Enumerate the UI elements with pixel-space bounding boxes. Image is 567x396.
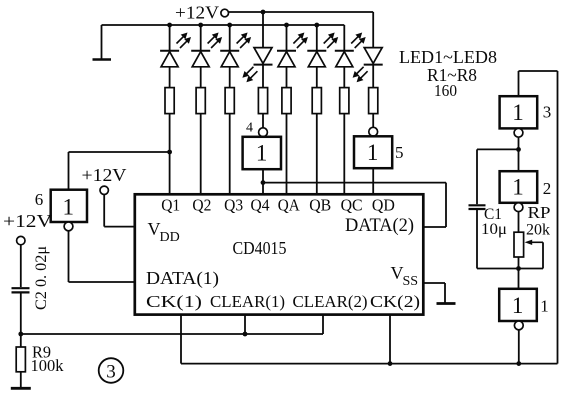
capacitor C1 <box>469 205 486 209</box>
wire clock rail <box>181 363 558 365</box>
wire to C1 branch <box>477 149 519 204</box>
svg-text:CD4015: CD4015 <box>233 238 287 258</box>
resistor R1 <box>165 88 174 114</box>
svg-text:CK(2): CK(2) <box>370 292 420 311</box>
LED LED8 <box>353 12 383 82</box>
ground R9 <box>11 372 31 389</box>
wire U6 output to DATA(1) <box>69 231 135 282</box>
LED LED1 <box>160 25 191 67</box>
gate U1g bubble <box>514 321 523 330</box>
terminal +12V (VDD) <box>100 186 108 194</box>
svg-text:Q2: Q2 <box>192 196 211 215</box>
svg-text:QA: QA <box>278 196 301 215</box>
resistor R8 <box>369 88 378 114</box>
svg-text:1: 1 <box>512 100 524 125</box>
gate U1g <box>499 289 537 321</box>
wire R4 to U4 bubble <box>262 114 264 128</box>
svg-text:+12V: +12V <box>82 165 127 185</box>
gate U2 bubble <box>514 203 523 212</box>
svg-text:+12V: +12V <box>3 211 52 231</box>
svg-text:3: 3 <box>543 103 552 122</box>
IC U1 CD4015 <box>135 194 424 314</box>
ground VSS <box>423 283 455 304</box>
resistor R7 <box>340 88 349 114</box>
svg-text:100k: 100k <box>31 356 64 375</box>
terminal +12V (top) <box>221 9 229 17</box>
wire R8 to U5 bubble <box>372 114 374 128</box>
wire to U1 gate input <box>518 269 520 289</box>
svg-text:C2 0. 02μ: C2 0. 02μ <box>33 246 50 310</box>
wire U5 input to QD pin <box>372 168 374 194</box>
svg-text:QD: QD <box>372 196 395 215</box>
gate U3 <box>500 96 538 128</box>
svg-text:20k: 20k <box>526 222 550 239</box>
junction Q4/DATA(2) <box>261 180 266 185</box>
wire R2 to IC pin <box>200 114 202 195</box>
wire U2 out to RP <box>518 212 520 233</box>
potentiometer RP <box>514 232 524 257</box>
junction rail/LED1 <box>167 23 172 28</box>
gate U5 bubble <box>369 127 378 136</box>
resistor R5 <box>282 88 291 114</box>
gate U4 bubble <box>259 128 268 137</box>
wire CLEAR line <box>21 315 323 334</box>
junction rail/LED6 <box>314 23 319 28</box>
terminal +12V (left) <box>17 236 25 244</box>
svg-text:160: 160 <box>434 81 457 100</box>
wire terminal to C2 <box>20 245 22 287</box>
svg-text:Q3: Q3 <box>224 196 243 215</box>
svg-text:1: 1 <box>512 175 524 200</box>
wire LED2 to R2 <box>200 67 202 88</box>
junction rail/LED2 <box>198 23 203 28</box>
wire U6 input from Q1 column <box>69 152 170 190</box>
wire RP bottom <box>518 257 520 269</box>
wire CLEAR(1) stub <box>244 315 246 334</box>
wire U1g out to clock rail <box>518 330 520 364</box>
junction on +12V rail at LED4 column <box>261 10 266 15</box>
gate U4 <box>243 137 281 169</box>
LED LED5 <box>277 25 308 67</box>
wire LED4 to R4 <box>262 65 264 88</box>
svg-text:1: 1 <box>62 195 74 220</box>
svg-text:QB: QB <box>309 196 331 215</box>
gate U6 <box>51 190 87 222</box>
wire LED5 to R5 <box>286 67 288 88</box>
wire U3 out to U2 <box>518 137 520 171</box>
wire R1 to IC pin <box>169 114 171 195</box>
wire +12V rail <box>229 11 374 13</box>
svg-text:1: 1 <box>540 297 549 316</box>
svg-text:CLEAR(2): CLEAR(2) <box>293 292 368 311</box>
svg-text:+12V: +12V <box>175 3 219 23</box>
svg-text:10μ: 10μ <box>481 221 507 238</box>
svg-text:5: 5 <box>395 143 404 162</box>
wire DATA(2) feedback <box>263 183 446 227</box>
svg-text:Q4: Q4 <box>251 196 270 215</box>
svg-text:2: 2 <box>543 179 552 198</box>
wire R5 to IC pin <box>286 114 288 195</box>
svg-text:1: 1 <box>367 140 379 165</box>
pin label VSS <box>391 263 419 289</box>
junction U1g/rail <box>516 361 521 366</box>
svg-text:Q1: Q1 <box>161 196 180 215</box>
LED LED4 <box>242 12 272 82</box>
junction U3 out <box>516 147 521 152</box>
junction CLEAR(1) <box>243 332 248 337</box>
svg-text:LED1~LED8: LED1~LED8 <box>399 47 497 67</box>
wire LED6 to R6 <box>316 67 318 88</box>
svg-text:4: 4 <box>246 121 253 136</box>
svg-text:SS: SS <box>403 274 419 289</box>
svg-text:QC: QC <box>341 196 363 215</box>
svg-text:DATA(1): DATA(1) <box>146 268 219 289</box>
wire CK(1) stub <box>180 315 182 364</box>
resistor R4 <box>258 88 267 114</box>
wire VDD <box>104 195 135 227</box>
wire R7 to IC pin <box>343 114 345 195</box>
resistor R3 <box>225 88 234 114</box>
junction oscillator bottom <box>516 266 521 271</box>
ground (top-left) <box>93 25 112 60</box>
resistor R2 <box>196 88 205 114</box>
junction rail/LED3 <box>227 23 232 28</box>
wire LED7 to R7 <box>343 67 345 88</box>
svg-text:CLEAR(1): CLEAR(1) <box>210 292 285 311</box>
LED LED3 <box>220 25 251 67</box>
junction rail/LED5 <box>284 23 289 28</box>
wire LED3 to R3 <box>229 67 231 88</box>
junction CK(2)/rail <box>388 361 393 366</box>
wire LED cathode rail <box>102 24 345 26</box>
gate U3 bubble <box>514 128 523 137</box>
wire R3 to IC pin <box>229 114 231 195</box>
svg-text:CK(1): CK(1) <box>146 292 202 311</box>
wire C2 to junction <box>20 292 22 347</box>
figure number 3 <box>99 358 124 383</box>
wire LED1 to R1 <box>169 67 171 88</box>
svg-text:6: 6 <box>35 190 44 209</box>
wire U4 input to Q4 pin <box>262 169 264 194</box>
junction C2/R9/CLEAR <box>18 332 23 337</box>
svg-text:DD: DD <box>160 230 180 245</box>
svg-text:RP: RP <box>528 203 551 222</box>
LED LED2 <box>191 25 222 67</box>
gate U5 <box>354 136 392 168</box>
svg-text:3: 3 <box>106 361 116 382</box>
svg-text:1: 1 <box>512 293 524 318</box>
wire LED8 to R8 <box>372 65 374 88</box>
gate U6 bubble <box>64 222 73 231</box>
RP wiper arrow <box>525 240 543 269</box>
wire C1 to bottom <box>476 209 478 269</box>
resistor R9 <box>16 347 25 372</box>
capacitor C2 <box>12 288 30 292</box>
wire CK(2) stub <box>389 315 391 364</box>
svg-text:DATA(2): DATA(2) <box>345 216 414 236</box>
wire oscillator bottom <box>477 268 543 270</box>
wire clock rail to U3 input <box>519 71 558 364</box>
wire R6 to IC pin <box>316 114 318 195</box>
pin label VDD <box>148 219 180 245</box>
junction Q1 column / U6 input <box>167 150 172 155</box>
LED LED6 <box>307 25 338 67</box>
resistor R6 <box>312 88 321 114</box>
svg-text:1: 1 <box>256 141 268 166</box>
LED LED7 <box>335 25 366 67</box>
gate U2 <box>500 171 538 203</box>
